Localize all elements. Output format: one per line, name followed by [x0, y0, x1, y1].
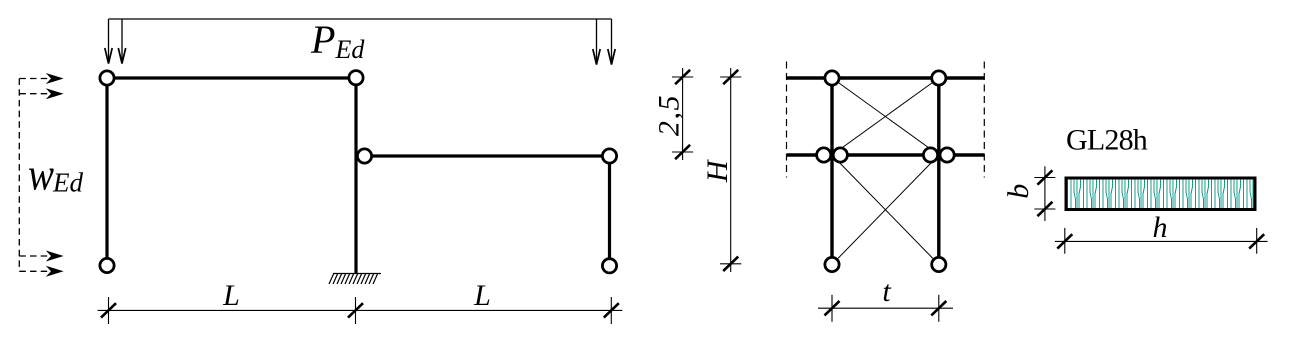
svg-text:2,5: 2,5 — [653, 94, 686, 136]
svg-text:Ed: Ed — [52, 168, 83, 198]
svg-text:b: b — [1002, 184, 1035, 199]
svg-text:GL28h: GL28h — [1066, 124, 1148, 157]
svg-text:t: t — [882, 275, 891, 308]
svg-text:h: h — [1153, 211, 1168, 244]
svg-text:w: w — [28, 149, 54, 200]
svg-text:L: L — [222, 279, 240, 312]
svg-text:H: H — [701, 158, 734, 183]
svg-text:L: L — [473, 279, 491, 312]
